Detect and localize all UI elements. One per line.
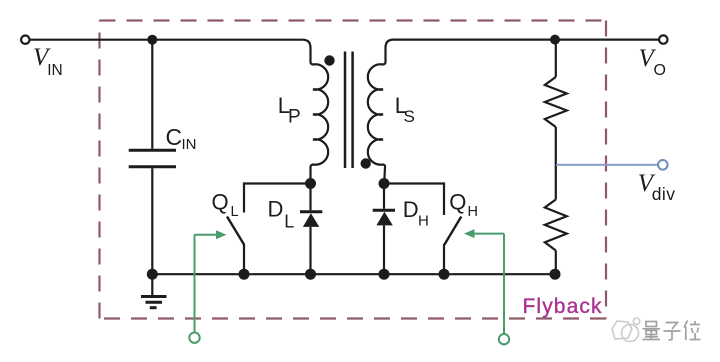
svg-text:L: L (284, 211, 294, 231)
resistor R1 lead (555, 40, 557, 77)
QH gate drive (green) (473, 234, 504, 335)
svg-text:D: D (403, 197, 419, 222)
wire: Vdiv tap (blue) (556, 164, 658, 166)
wire: CIN top lead (151, 40, 153, 149)
位 (684, 321, 688, 328)
QL gate drive (green) (195, 235, 218, 334)
resistor R1 (545, 77, 567, 127)
wire: bottom rail (152, 273, 555, 275)
svg-text:P: P (288, 107, 301, 128)
子 (666, 323, 678, 330)
resistor R2 (545, 200, 567, 251)
secondary phase dot (361, 158, 371, 168)
node: ground junction (147, 269, 158, 280)
svg-text:Q: Q (449, 190, 466, 215)
QH gate terminal (499, 334, 509, 344)
dashed Flyback boundary box (100, 21, 607, 319)
watermark logo (612, 318, 640, 341)
output terminal VO (659, 35, 667, 43)
watermark text 量子位 (643, 321, 701, 341)
input terminal VIN (21, 36, 29, 44)
wire: divider middle (555, 127, 557, 200)
node: CIN top junction (147, 35, 157, 45)
resistor R2 bottom lead (555, 251, 557, 275)
transformer secondary winding LS (368, 62, 386, 184)
node: DH bottom (379, 269, 390, 280)
node: QH bottom (439, 269, 450, 280)
Vdiv terminal (658, 160, 668, 170)
svg-text:S: S (404, 107, 415, 126)
wire: QH top connection (384, 184, 444, 216)
diode DL (300, 210, 322, 213)
wire: CIN bottom lead (151, 168, 153, 274)
switch QL (227, 217, 244, 245)
diode DH (373, 209, 395, 212)
wire: top rail left (VIN to primary top) (30, 40, 311, 62)
svg-text:H: H (468, 204, 478, 220)
node: secondary bottom junction (379, 178, 390, 189)
node: divider bottom (550, 269, 561, 280)
transformer core (344, 52, 347, 169)
primary phase dot (324, 55, 334, 65)
switch QH (445, 217, 462, 245)
ground (141, 274, 167, 308)
svg-text:L: L (231, 204, 239, 220)
svg-text:IN: IN (47, 62, 63, 79)
svg-text:IN: IN (182, 136, 197, 153)
wire: QL top connection (244, 184, 311, 213)
QL gate terminal (189, 333, 199, 343)
svg-text:O: O (654, 62, 666, 79)
svg-text:H: H (418, 213, 429, 230)
node: divider top junction (550, 35, 560, 45)
diode DL lead (309, 184, 311, 211)
svg-text:Q: Q (212, 190, 229, 215)
量 (646, 322, 657, 327)
svg-text:div: div (652, 184, 676, 204)
transformer primary winding LP (311, 62, 329, 184)
node: QL bottom (239, 269, 250, 280)
svg-text:C: C (166, 124, 183, 150)
capacitor CIN (129, 149, 176, 152)
node: primary bottom junction (305, 178, 316, 189)
wire: top rail right (secondary top to VO) (386, 40, 660, 62)
diode DH lead (383, 184, 385, 209)
svg-text:D: D (268, 197, 284, 222)
svg-text:Flyback: Flyback (523, 295, 603, 318)
node: DL bottom (305, 269, 316, 280)
